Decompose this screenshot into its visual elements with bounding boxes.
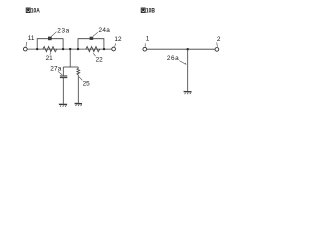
leader for label 23a: [51, 32, 56, 37]
capacitor 27a: [60, 76, 67, 78]
junction dot n5: [103, 48, 105, 50]
svg-text:12: 12: [114, 36, 122, 43]
junction dot n3: [69, 48, 71, 50]
terminal 11: [23, 47, 27, 51]
ground left A: [59, 104, 67, 107]
leader arrow for label 26a: [179, 61, 186, 65]
leader for label 1: [144, 43, 146, 46]
wire main B: [147, 48, 215, 50]
svg-text:22: 22: [96, 57, 104, 64]
fuse 24a: [90, 37, 94, 40]
leader for label 2: [216, 42, 219, 46]
svg-text:24a: 24a: [99, 27, 111, 34]
wire main A: [27, 48, 111, 50]
svg-text:21: 21: [46, 55, 54, 62]
resistor 22: [86, 47, 100, 52]
junction dot n4: [77, 48, 79, 50]
wire tee A: [63, 66, 78, 68]
fuse 23a: [48, 37, 52, 41]
svg-text:2: 2: [217, 36, 221, 43]
ground right A: [75, 104, 82, 107]
leader for label 27a: [58, 71, 62, 75]
wire shunt down A: [69, 49, 71, 67]
svg-text:25: 25: [83, 80, 91, 87]
terminal 12: [112, 47, 116, 51]
leader for label 21: [50, 52, 51, 55]
leader for label 22: [93, 53, 95, 56]
terminal 2: [215, 48, 219, 52]
leader for label 24a: [93, 32, 98, 36]
wire bypass branch A-left: [37, 39, 63, 49]
wire bypass branch A-right: [78, 39, 104, 49]
wire cap branch lower: [62, 78, 64, 104]
junction dot B: [187, 48, 189, 50]
leader for label 11: [26, 42, 27, 47]
leader for label 25: [79, 77, 82, 81]
wire cap branch upper: [62, 67, 64, 76]
svg-text:27a: 27a: [50, 66, 62, 73]
svg-text:26a: 26a: [167, 55, 179, 62]
figure title 図10B: [141, 8, 145, 13]
svg-text:1: 1: [146, 36, 150, 43]
resistor 25: [77, 67, 80, 75]
terminal 1: [143, 47, 147, 51]
junction dot n1: [36, 48, 38, 50]
svg-text:10B: 10B: [146, 8, 155, 15]
wire shunt down B 26a: [187, 49, 189, 91]
junction dot n2: [62, 48, 64, 50]
svg-text:11: 11: [28, 35, 35, 42]
leader for label 12: [115, 43, 116, 46]
svg-text:23a: 23a: [57, 27, 69, 34]
wire res branch lower: [77, 75, 79, 103]
ground B: [184, 92, 192, 95]
figure title 図10A: [26, 8, 30, 13]
svg-text:10A: 10A: [31, 8, 41, 15]
resistor 21: [43, 47, 57, 52]
